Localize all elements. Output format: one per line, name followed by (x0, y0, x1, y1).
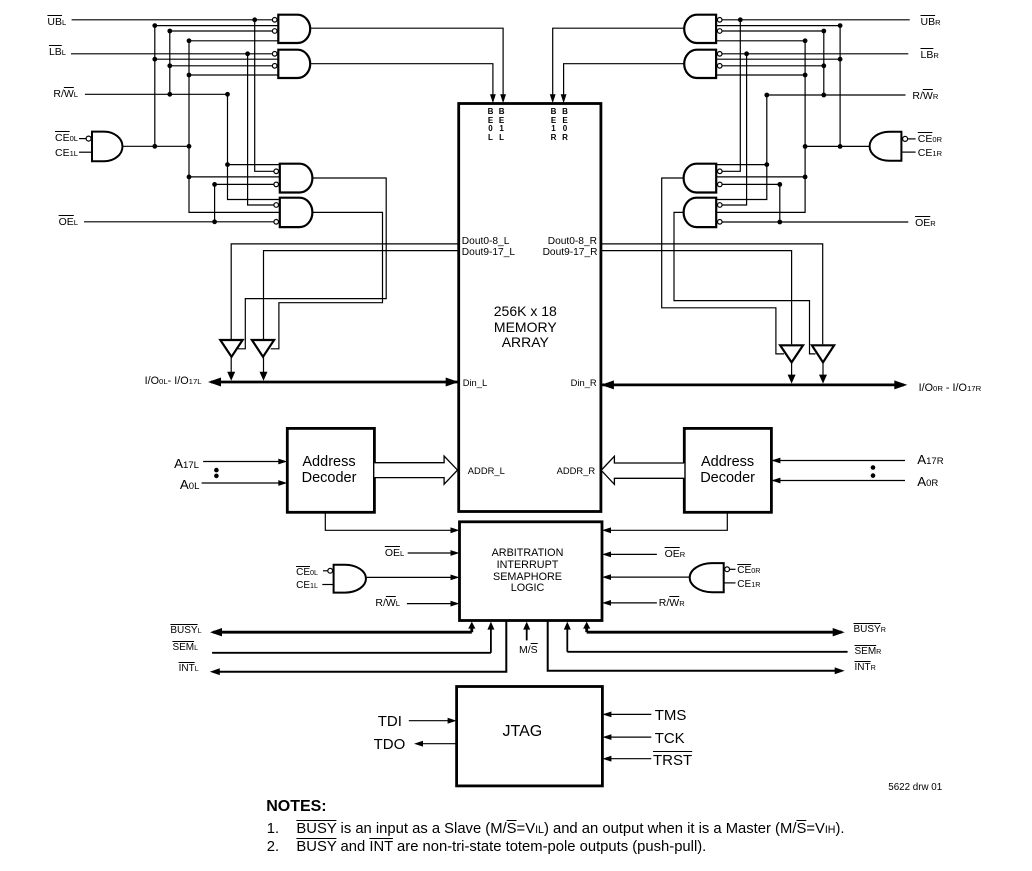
wire LBR to gate G2R input1 (722, 53, 908, 55)
bubble G1R input3 (717, 29, 722, 34)
arrowhead bus left end (208, 378, 221, 387)
wire vertical V3R to gate G4R input3 (716, 41, 805, 213)
wire to gate G2R input4 (716, 74, 805, 76)
arrowhead M/S into block (523, 622, 530, 630)
wire vertical V4R (779, 184, 781, 222)
and-gate U4 chip enable right lower (690, 563, 724, 592)
wire to gate G3 input3 (189, 176, 280, 178)
net label TRST (653, 753, 692, 768)
net label A17R (917, 453, 943, 467)
arrowhead TDI (448, 718, 457, 724)
wire vertical V1 (154, 26, 156, 147)
pin label BE column 1 (485, 108, 497, 142)
wire gate G4R output to buffer T2R enable (674, 212, 816, 354)
wire SEMR riser (566, 627, 568, 652)
net label OEL lower (385, 548, 404, 559)
arrowhead CER arbitration (602, 574, 611, 580)
ellipsis dot right (871, 465, 876, 470)
note number 2 (267, 840, 279, 855)
wire buffer T2 output (263, 357, 265, 374)
arrowhead OEL arbitration (451, 550, 460, 556)
net label TDI (378, 714, 402, 729)
wire to gate G3 input4 (215, 183, 274, 185)
wire vertical V6 to gate G4 input2 (248, 54, 274, 205)
bubble G2 input1 (272, 52, 277, 57)
arrowhead decoderR to arbitration (602, 527, 611, 533)
junction (212, 219, 217, 224)
arrowhead T2 to bus (260, 372, 268, 381)
wire Dout0-8_L to buffer T1 (231, 244, 459, 339)
net label CE1R lower (737, 580, 760, 590)
arrowhead R/WR arbitration (602, 600, 611, 606)
wire vertical V7R to gate G3R input2 (722, 20, 740, 172)
wire vertical V6R to gate G4R input2 (722, 54, 747, 205)
and-gate G3R (684, 164, 717, 193)
wire A0R (771, 480, 905, 482)
bubble U1 input1 (86, 136, 91, 141)
wire gate G1R output to BE1R (553, 28, 685, 97)
ellipsis dot left (214, 468, 219, 473)
wire vertical V1R (839, 26, 841, 147)
wire TDO (420, 743, 457, 745)
net label OER lower (665, 549, 686, 560)
block label address decoder left (269, 454, 389, 486)
bubble U3 input1 (328, 568, 333, 573)
wire SEML riser (490, 627, 492, 653)
buffer triangle T1 (220, 340, 242, 357)
and-gate U3 chip enable left lower (334, 565, 366, 593)
junction (821, 93, 826, 98)
wire vertical V7 to gate G3 input2 (255, 20, 274, 172)
net label R/WR (912, 91, 938, 102)
junction (738, 17, 743, 22)
and-gate G2 (278, 50, 310, 78)
junction (838, 23, 843, 28)
wire gate G1 output to BE1L (310, 28, 503, 97)
wire CE0L to gate U3 (323, 570, 328, 572)
arrowhead SEML into block (487, 622, 494, 630)
junction (252, 17, 257, 22)
net label BUSYL (170, 626, 201, 636)
wire CE0L to gate U1 (79, 138, 86, 140)
wire to gate G3R input3 (716, 176, 805, 178)
junction (152, 23, 157, 28)
wire CE1R to gate U4 (724, 582, 736, 584)
net label TMS (655, 708, 687, 723)
note text 1 (296, 822, 844, 837)
wire CE1L to gate U1 (79, 151, 92, 153)
and-gate G4 (280, 198, 313, 227)
wire CE gate U4 output to arbitration (608, 576, 691, 578)
wire vertical V4 (214, 184, 216, 222)
bubble U4 input1 (725, 567, 730, 572)
arrowhead BE1L (500, 94, 506, 103)
bubble U2 input1 (903, 136, 908, 141)
bubble G4 input4 (274, 220, 279, 225)
net label A0R (917, 475, 938, 489)
value label memory array (445, 304, 605, 351)
wire to gate G3 input1 (228, 164, 280, 166)
block address decoder right (684, 428, 771, 512)
wire vertical V5 to gate G4 input1 (228, 94, 280, 199)
wire to gate G3R input4 (722, 183, 780, 185)
pin label BE column 2 (496, 108, 508, 142)
wire to gate G1 input3 (170, 30, 273, 32)
net label SEMR (855, 647, 882, 657)
net label I/O0L-I/O17L (145, 376, 202, 387)
wire gate G2 output to BE0L (310, 64, 493, 97)
wire buffer T1R output (791, 362, 793, 377)
net label SEML (172, 643, 198, 653)
block 256Kx18 memory array (459, 104, 601, 512)
arrowhead OER arbitration (602, 552, 611, 558)
pin label Din_L (463, 378, 488, 387)
bubble G3 input2 (274, 169, 279, 174)
junction (764, 93, 769, 98)
bubble G4R input2 (718, 203, 723, 208)
net label INTR (855, 663, 876, 673)
bubble G3R input4 (718, 182, 723, 187)
wire to gate G2R input2 (716, 58, 840, 60)
arrowhead Din_R (601, 380, 614, 389)
net label OEL (59, 217, 78, 228)
arrowhead TRST (602, 756, 611, 762)
net label TDO (374, 737, 406, 752)
net label R/WL (53, 89, 78, 100)
wire to gate G1R input3 (722, 30, 824, 32)
block address decoder left (287, 428, 374, 512)
wire INTL (216, 621, 506, 672)
bubble G3R input2 (718, 169, 723, 174)
wire BUSYR horizontal (587, 631, 842, 634)
net label CE1R (918, 148, 942, 159)
wire TMS (609, 713, 652, 715)
wire SEMR horizontal (567, 651, 847, 653)
net label LBR (921, 50, 939, 61)
arrowhead BE1R (550, 94, 556, 103)
ellipsis dot right (871, 473, 876, 478)
wire R/WR to arbitration (608, 602, 657, 604)
wire A17L (203, 461, 281, 463)
wire OEL to arbitration (408, 552, 453, 554)
arrowhead BE0L (490, 94, 496, 103)
net label CE0R lower (737, 566, 760, 576)
wire to gate G2 input2 (155, 58, 278, 60)
junction (744, 51, 749, 56)
and-gate U1 chip enable left (92, 132, 122, 162)
wire BUSYL horizontal (213, 631, 472, 634)
wire OER to gate G4R input4 (722, 221, 908, 223)
note number 1 (267, 822, 279, 837)
arrowhead T1 to bus (227, 372, 235, 381)
buffer triangle T2 (252, 340, 274, 357)
net label A17L (174, 457, 199, 471)
pin label Dout0-8_R (548, 237, 597, 247)
net label A0L (180, 478, 200, 492)
pin label Dout0-8_L (462, 237, 510, 247)
junction (803, 38, 808, 43)
wire buffer T1 output (230, 357, 232, 374)
junction (187, 38, 192, 43)
wire TRST (609, 758, 652, 760)
wire BUSYR riser (585, 627, 588, 632)
net label CE0R (918, 134, 942, 145)
wire CE gate U3 output to arbitration (365, 576, 453, 578)
arrowhead A0R (771, 478, 780, 484)
net label I/O0R-I/O17R (919, 383, 982, 394)
junction (803, 175, 808, 180)
block JTAG (457, 687, 603, 786)
junction (152, 57, 157, 62)
note heading (266, 799, 326, 815)
junction (187, 144, 192, 149)
arrowhead BUSYR (833, 628, 845, 636)
wire gate G3 output to buffer T1 enable (238, 178, 386, 349)
arrowhead T2R to bus (819, 375, 827, 384)
junction (821, 63, 826, 68)
wire TDI (409, 720, 450, 722)
pin label Dout9-17_L (462, 248, 515, 258)
block label address decoder right (668, 454, 788, 486)
net label UBR (921, 17, 941, 28)
junction (821, 29, 826, 34)
wire to gate G1 input2 (155, 25, 278, 27)
junction (225, 92, 230, 97)
wire address decoder R to arbitration (608, 512, 727, 530)
wire Dout9-17_R to buffer T1R (601, 251, 792, 345)
arrowhead TCK (602, 734, 611, 740)
net label CE0L (55, 133, 78, 144)
wire CE gate U1 output (122, 145, 189, 147)
wire A0L (202, 482, 281, 484)
and-gate G2R (684, 50, 716, 78)
wire R/WL horizontal (85, 93, 228, 95)
wire UBR to gate G1R input1 (722, 19, 910, 21)
junction (838, 144, 843, 149)
wire buffer T2R output (822, 362, 824, 377)
junction (167, 92, 172, 97)
junction (167, 29, 172, 34)
pin label ADDR_L (468, 466, 505, 475)
junction (152, 144, 157, 149)
wire CE0R to gate U4 (730, 568, 736, 570)
wire to gate G1 input4 (189, 40, 278, 42)
wire vertical V2 (169, 31, 171, 94)
wire gate G2R output to BE0R (564, 64, 685, 97)
wire CE0R to gate U2 (908, 138, 916, 140)
arrowhead BE0R (561, 94, 567, 103)
and-gate U2 chip enable right (870, 132, 902, 161)
buffer triangle T2R (812, 345, 834, 362)
wire to gate G2R input3 (722, 65, 824, 67)
bubble G4 input2 (274, 203, 279, 208)
pin label Din_R (571, 378, 597, 387)
wire CE gate U2 output (805, 145, 870, 147)
net label CE1L lower (296, 581, 318, 591)
note drawing number (888, 783, 942, 793)
bubble G2 input3 (272, 64, 277, 69)
junction (803, 144, 808, 149)
wire LBL to gate G2 input1 (71, 53, 272, 55)
net label TCK (655, 731, 685, 746)
arrowhead CEL arbitration (451, 575, 460, 581)
arrowhead A0L (278, 480, 287, 486)
net label OER (915, 218, 936, 229)
arrowhead TMS (602, 712, 611, 718)
wire UBL to gate G1 input1 (72, 19, 273, 21)
net label BUSYR (854, 625, 886, 635)
wire SEML horizontal (212, 652, 491, 654)
and-gate G1 (278, 15, 310, 43)
net label INTL (179, 664, 199, 674)
wire BUSYL riser (470, 627, 473, 632)
hollow arrow ADDR_R (601, 456, 684, 484)
junction (838, 57, 843, 62)
pin label BE column 3 (548, 108, 560, 142)
bubble G3 input4 (274, 182, 279, 187)
wire to gate G3R input1 (716, 164, 767, 166)
wire vertical V3 to gate G4 input3 (189, 41, 280, 213)
bus I/O0R-I/O17R (602, 383, 904, 386)
junction (225, 162, 230, 167)
arrowhead A17L (278, 459, 287, 465)
bubble G2R input1 (717, 52, 722, 57)
wire vertical V5R to gate G4R input1 (716, 95, 767, 200)
net label M/S (519, 645, 538, 656)
arrowhead decoderL to arbitration (451, 527, 460, 533)
arrowhead INTR (835, 667, 845, 674)
wire to gate G2 input3 (170, 65, 273, 67)
wire M/S input (526, 627, 528, 640)
pin label Dout9-17_R (543, 248, 598, 258)
wire vertical V2R (823, 31, 825, 95)
junction (764, 162, 769, 167)
wire gate G3R output to buffer T1R enable (662, 178, 784, 354)
arrowhead A17R (771, 458, 780, 464)
wire gate G4 output to buffer T2 enable (271, 212, 383, 348)
junction (245, 51, 250, 56)
net label LBL (49, 47, 66, 58)
arrowhead INTL (210, 668, 220, 675)
bubble G2R input3 (717, 64, 722, 69)
junction (803, 73, 808, 78)
arrowhead R/WL arbitration (451, 601, 460, 607)
wire to gate G1R input2 (716, 25, 840, 27)
bubble G1 input3 (272, 29, 277, 34)
block label JTAG (503, 724, 543, 740)
wire address decoder L to arbitration (325, 512, 453, 530)
wire Dout9-17_L to buffer T2 (264, 251, 459, 339)
junction (777, 182, 782, 187)
net label CE0L lower (296, 568, 318, 578)
pin label BE column 4 (559, 108, 571, 142)
bubble G1 input1 (272, 18, 277, 23)
wire A17R (771, 460, 905, 462)
and-gate G4R (684, 198, 717, 227)
bus I/O0L-I/O17L (211, 381, 458, 384)
junction (777, 220, 782, 225)
arrowhead BUSYR into block (583, 622, 590, 629)
arrowhead TDO (414, 741, 423, 747)
junction (167, 63, 172, 68)
wire OER to arbitration (608, 553, 657, 555)
wire Dout0-8_R to buffer T2R (601, 244, 823, 344)
buffer triangle T1R (780, 345, 803, 362)
net label R/WL lower (375, 598, 400, 609)
wire R/WL to arbitration (407, 603, 453, 605)
wire to gate G2 input4 (189, 74, 278, 76)
junction (187, 73, 192, 78)
arrowhead BUSYL (210, 628, 222, 636)
arrowhead BUSYL into block (468, 622, 475, 629)
arrowhead bus right end (894, 380, 907, 389)
wire R/WR horizontal (767, 94, 906, 96)
and-gate G3 (280, 164, 313, 193)
junction (212, 182, 217, 187)
wire CE1R to gate U2 (901, 151, 915, 153)
junction (187, 175, 192, 180)
net label CE1L (55, 148, 78, 159)
block label arbitration (468, 548, 588, 595)
pin label ADDR_R (557, 466, 596, 475)
arrowhead Din_L (446, 378, 459, 387)
wire INTR (548, 621, 839, 671)
arrowhead T1R to bus (788, 375, 796, 384)
wire TCK (609, 736, 652, 738)
bubble G1R input1 (717, 18, 722, 23)
block arbitration interrupt semaphore logic (460, 522, 603, 621)
wire CE1L to gate U3 (322, 584, 333, 586)
bubble G4R input4 (718, 220, 723, 225)
wire OEL to gate G4 input4 (84, 221, 274, 223)
note text 2 (296, 840, 706, 855)
arrowhead SEMR into block (564, 622, 571, 630)
net label UBL (47, 17, 66, 28)
ellipsis dot left (214, 474, 219, 479)
net label R/WR lower (659, 598, 685, 609)
hollow arrow ADDR_L (374, 456, 457, 484)
and-gate G1R (684, 15, 716, 43)
wire to gate G1R input4 (716, 40, 805, 42)
